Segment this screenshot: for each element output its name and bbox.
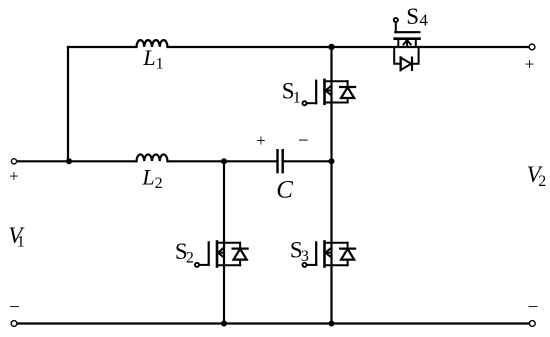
svg-text:3: 3 — [301, 248, 309, 265]
svg-text:+: + — [525, 55, 535, 74]
svg-text:1: 1 — [293, 89, 301, 106]
svg-text:L: L — [142, 45, 155, 70]
svg-text:S: S — [406, 4, 419, 29]
svg-text:4: 4 — [419, 10, 428, 29]
svg-text:−: − — [9, 297, 20, 318]
svg-text:2: 2 — [155, 175, 163, 192]
svg-text:+: + — [9, 167, 19, 186]
svg-text:2: 2 — [186, 249, 194, 266]
svg-text:C: C — [276, 176, 293, 203]
svg-text:2: 2 — [538, 173, 546, 190]
svg-text:L: L — [141, 165, 154, 190]
svg-text:+: + — [256, 131, 266, 150]
svg-text:1: 1 — [156, 55, 164, 72]
svg-text:1: 1 — [17, 234, 25, 251]
svg-text:−: − — [298, 130, 309, 151]
svg-text:−: − — [528, 297, 539, 318]
